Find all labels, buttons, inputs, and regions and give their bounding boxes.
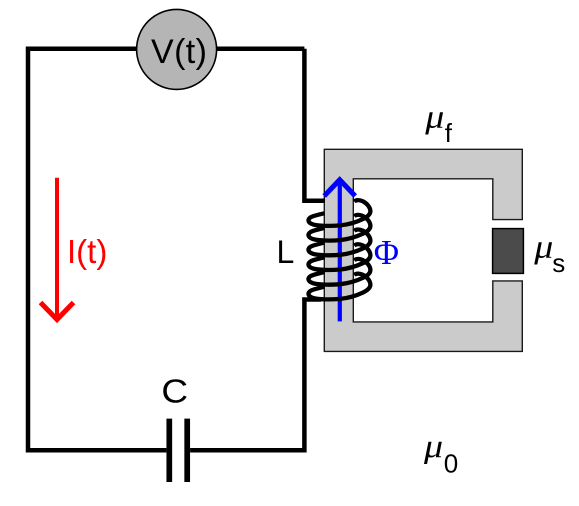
gap block mu_s <box>493 229 524 274</box>
source V(t) circle <box>137 9 217 89</box>
svg-text:I(t): I(t) <box>67 233 107 270</box>
svg-text:μ: μ <box>533 228 553 265</box>
wire: bottom-right + right riser (lower) <box>190 300 321 451</box>
svg-text:0: 0 <box>444 449 458 479</box>
svg-text:s: s <box>552 248 565 278</box>
inductor L coil turn 4 <box>308 244 370 270</box>
inductor L coil turn 1 <box>308 200 370 226</box>
svg-text:V(t): V(t) <box>151 33 207 71</box>
flux arrow Phi (blue) head <box>324 180 355 196</box>
capacitor C left plate <box>166 419 172 482</box>
current arrow I(t) shaft (red) <box>55 178 59 317</box>
inductor L coil turn 3 <box>308 230 370 256</box>
magnetic core (C-shaped, permeability mu_f) <box>324 149 522 351</box>
flux arrow Phi (blue) shaft <box>338 183 342 321</box>
wire: top + left + bottom-left <box>28 49 304 451</box>
svg-text:Φ: Φ <box>374 234 399 272</box>
inductor L coil turn 2 <box>308 215 370 241</box>
wire: right riser (upper) into coil <box>304 49 325 201</box>
capacitor C right plate <box>184 419 190 482</box>
svg-text:μ: μ <box>423 427 443 464</box>
svg-text:C: C <box>161 373 188 410</box>
svg-text:L: L <box>277 234 295 270</box>
svg-text:μ: μ <box>424 98 444 135</box>
inductor L coil turn 6 <box>308 274 370 300</box>
current arrow I(t) head (red) <box>41 303 74 320</box>
svg-text:f: f <box>445 118 453 148</box>
inductor L coil turn 5 <box>308 259 370 285</box>
